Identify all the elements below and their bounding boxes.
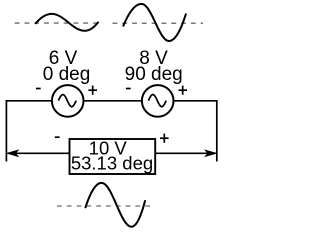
label V1 value 6 V (49, 48, 78, 69)
wire left vertical (5, 100, 7, 162)
waveform axis for 8V sine (dashed) (113, 22, 204, 24)
wire between sources (84, 100, 142, 102)
polarity plus V1 (88, 86, 97, 95)
waveform 6V sine (36, 14, 98, 31)
waveform 8V sine (123, 4, 185, 41)
wire left top (6, 100, 52, 102)
polarity plus V2 (178, 86, 187, 95)
polarity minus V1 (36, 88, 41, 90)
waveform 10V sine (sum) (86, 183, 146, 227)
wire right top (174, 100, 217, 102)
result value 10 V (89, 138, 128, 159)
polarity minus V2 (126, 88, 131, 90)
waveform axis for 6V sine (dashed) (15, 22, 97, 24)
source V1 (6 V 0 deg) (52, 85, 84, 117)
voltage arrow left half (points left) (7, 150, 70, 156)
wire right vertical (216, 100, 218, 162)
source V2 (8 V 90 deg) (142, 85, 174, 117)
label V2 phase 90 deg (125, 64, 183, 85)
waveform axis for 10V sine (dashed) (57, 205, 152, 207)
voltage arrow right half (points right) (155, 150, 216, 156)
result box (70, 139, 156, 174)
svg-text:90 deg: 90 deg (125, 64, 183, 85)
label V2 value 8 V (139, 48, 168, 69)
polarity minus total (55, 136, 60, 138)
result phase 53.13 deg (71, 153, 153, 174)
polarity plus total (160, 134, 169, 143)
label V1 phase 0 deg (43, 64, 91, 85)
svg-text:53.13 deg: 53.13 deg (71, 153, 153, 174)
svg-text:0 deg: 0 deg (43, 64, 91, 85)
